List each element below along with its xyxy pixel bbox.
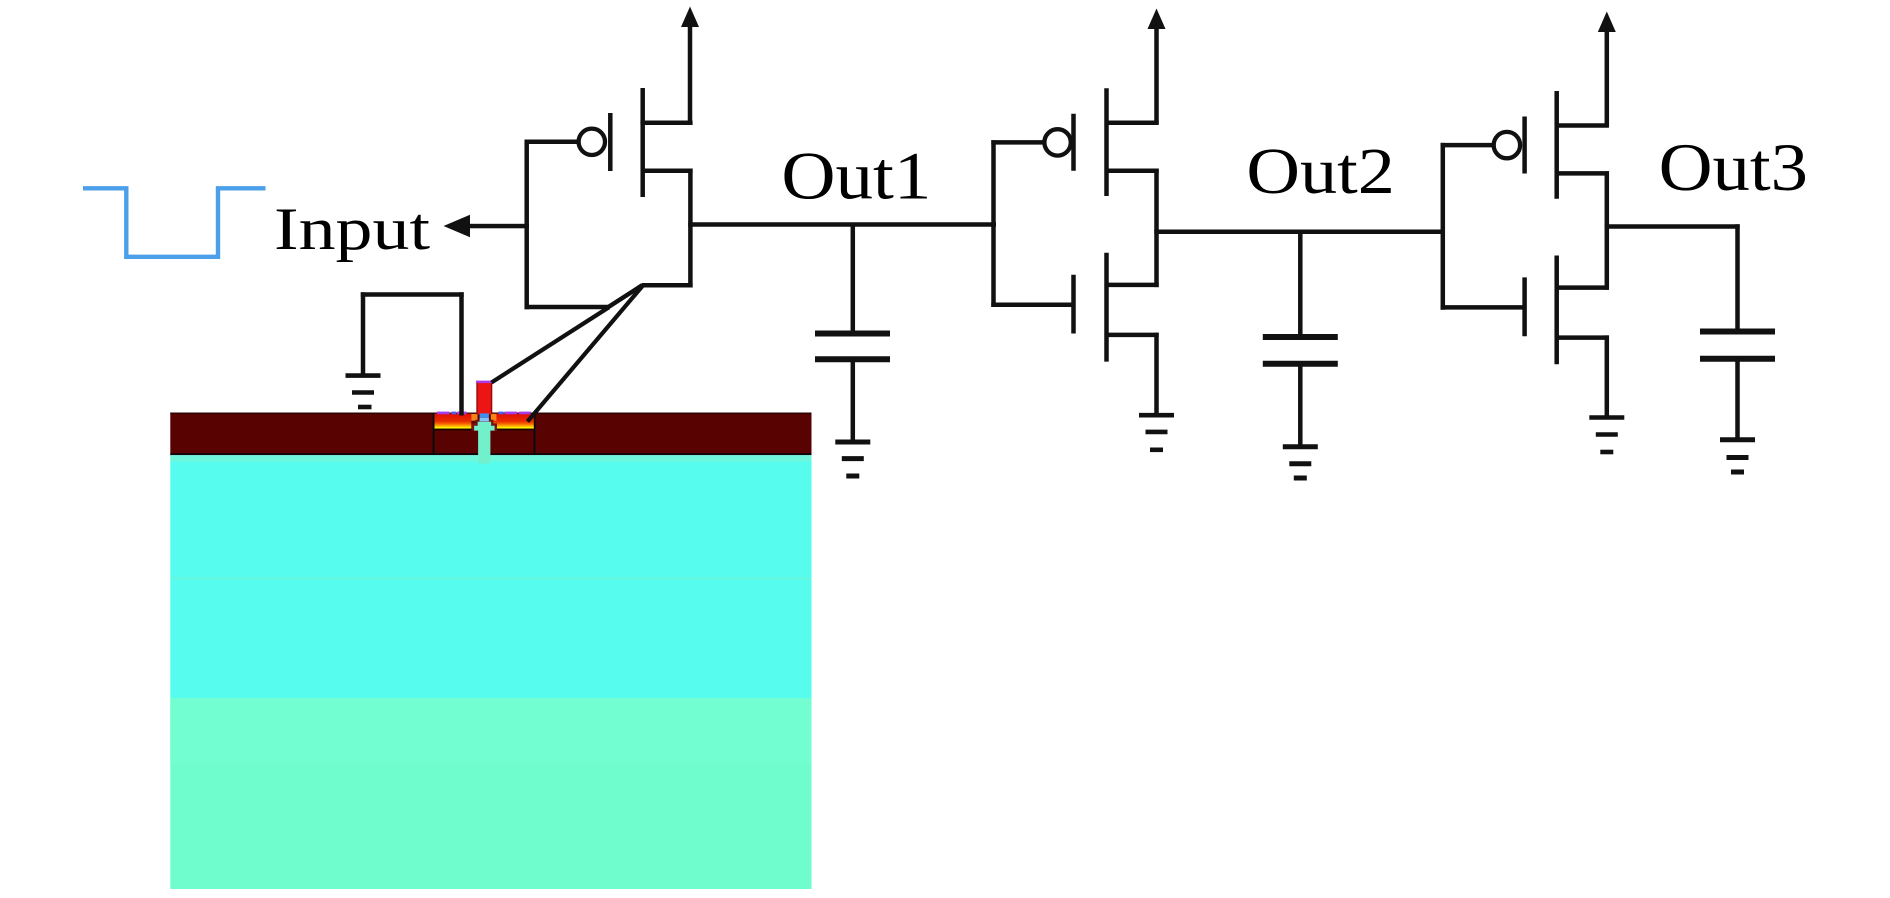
C1 top plate [815,331,890,337]
wire Out2 from stage2 [1154,229,1445,234]
purple gate top line [476,381,493,384]
stage2 output drop wire [1154,169,1159,288]
M4 PMOS drain connection [1557,123,1609,128]
C2 bottom lead [1298,364,1303,446]
grounded source loop of device [361,292,464,415]
VDD lead M2 [1154,26,1159,124]
subtle light line inside cyan [170,577,811,579]
M1 gate wire [525,140,578,145]
C2 top plate [1263,334,1338,340]
gate loop bottom wire [525,305,611,310]
M3 NMOS gate bar [1071,275,1076,334]
right device boundary line [534,413,536,454]
C1 bottom lead [851,359,856,441]
orange step left of gate [471,414,477,421]
M1 channel bar [640,88,645,197]
M2 PMOS gate wire [991,140,1043,145]
M3 source ground drop [1154,333,1159,415]
svg-text:Input: Input [274,196,430,262]
M5 source ground drop [1605,335,1610,417]
C1 bottom plate [815,356,890,362]
loop left drop [361,292,366,375]
device region (MOS gate stack cross-section) [433,381,536,464]
C2 top lead [1298,232,1303,337]
thin spring-green interlayer [170,455,811,461]
M5 NMOS source connection [1557,335,1609,340]
VDD arrowhead stage 1 [681,7,699,28]
aquamarine bottom substrate layer [170,698,811,889]
loop right drop into source [459,292,464,415]
inverter stage 3 [1441,29,1740,417]
M5 NMOS channel bar [1554,256,1559,365]
ground below C1 [835,442,870,476]
spring-green trench stem [478,428,490,464]
svg-text:Out2: Out2 [1246,135,1395,208]
svg-text:Out3: Out3 [1659,129,1808,205]
inversion bubble M1 [579,129,605,155]
dark gate side edges [476,382,477,414]
inversion bubble M2 [1044,129,1070,155]
drain doping gradient (right) [492,414,534,429]
callout line to drain of device [528,286,643,422]
stage3 input riser wire [1441,143,1446,310]
C3 top plate [1700,329,1775,335]
ground below C2 [1283,447,1318,478]
capacitor C3 on Out3 [1700,224,1775,439]
M3 NMOS gate wire [991,302,1073,307]
M1 source drop wire [688,169,693,288]
purple cap dashes left [437,412,450,415]
left device boundary line [433,413,435,454]
orange step right of gate [491,414,497,421]
C2 bottom plate [1263,361,1338,367]
blue gate oxide under gate [480,413,489,417]
transistor M1 (PMOS of stage 1) [525,24,997,309]
M3 NMOS channel bar [1104,253,1109,362]
M4 PMOS channel bar [1554,91,1559,199]
capacitor C2 on Out2 [1263,232,1338,446]
ground below stage2 NMOS [1139,415,1174,450]
M5 NMOS drain connection [1557,285,1609,290]
M2 PMOS source connection [1107,168,1159,173]
M4 PMOS source connection [1557,171,1609,176]
inversion bubble M4 [1494,132,1520,158]
loop notch horizontal [642,283,693,288]
device cross-section substrate stack [170,413,811,890]
C1 top lead [851,225,856,334]
M2 PMOS drain connection [1107,121,1159,126]
ground symbol (device source) [346,376,381,407]
C3 bottom lead [1735,359,1740,440]
callout line to gate of device [492,307,609,382]
M5 NMOS gate wire [1441,305,1525,310]
wire Out3 from stage3 [1605,224,1740,229]
black interface line under film [170,453,811,455]
dark-red stepped collar around channel trench [472,420,497,431]
M1 source connection [643,168,693,173]
inverter stage 2 [991,26,1445,415]
loop notch diagonal [608,285,642,307]
cyan substrate layer [170,462,811,699]
wire input arrow to inverter loop [465,224,529,229]
M4 PMOS gate bar [1522,117,1527,174]
red gate electrode [476,382,492,414]
loop top wire [361,292,464,297]
M5 NMOS gate bar [1522,277,1527,336]
C3 bottom plate [1700,356,1775,362]
spring-green channel trench (mushroom) [474,422,495,431]
VDD lead M4 [1605,29,1610,127]
capacitor C1 on Out1 [815,225,890,442]
M2 PMOS gate bar [1071,114,1076,171]
VDD arrowhead stage 2 [1148,9,1166,30]
source doping gradient (left) [435,414,472,429]
M4 PMOS gate wire [1441,143,1493,148]
ground below C3 [1720,440,1755,472]
stage3 output drop wire [1605,171,1610,290]
black line under source/drain [435,429,534,431]
ground below stage3 NMOS [1589,418,1624,453]
M1 drain connection [640,121,692,126]
purple cap dashes right [499,412,504,415]
svg-text:Out1: Out1 [781,138,931,214]
gate loop left wire [524,140,529,310]
input pulse waveform (blue) [83,188,266,256]
wire Out1 from M1 [688,222,996,227]
M3 NMOS drain connection [1107,283,1159,288]
stage2 input riser wire [991,140,996,307]
buried oxide / top film layer (maroon band) [170,413,811,455]
VDD arrowhead stage 3 [1598,12,1616,33]
input arrow (left-pointing) [444,215,471,237]
C3 corner drop wire [1735,224,1740,331]
thin dark top edge of film [170,413,811,415]
M2 PMOS channel bar [1104,88,1109,196]
VDD lead M1 [688,24,693,123]
M3 NMOS source connection [1107,333,1159,338]
M1 gate bar [608,113,613,171]
